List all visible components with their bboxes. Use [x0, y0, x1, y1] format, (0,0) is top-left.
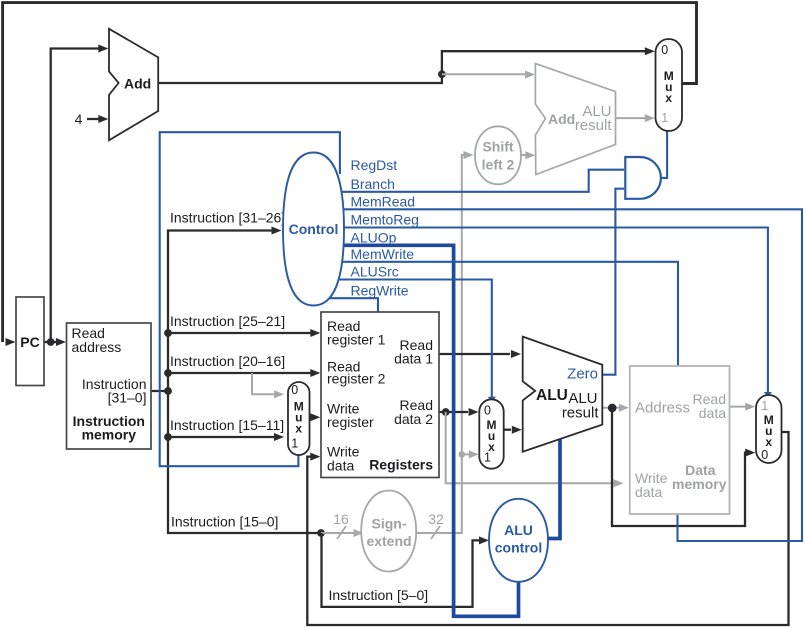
- svg-text:data: data: [327, 458, 354, 474]
- svg-text:Sign-: Sign-: [372, 516, 407, 532]
- svg-text:control: control: [495, 540, 542, 556]
- svg-text:1: 1: [484, 451, 491, 465]
- svg-text:Shift: Shift: [482, 138, 513, 154]
- svg-text:Instruction [15–11]: Instruction [15–11]: [170, 417, 284, 433]
- svg-text:1: 1: [661, 111, 668, 125]
- svg-text:left 2: left 2: [482, 156, 515, 172]
- svg-text:1: 1: [761, 399, 768, 413]
- svg-text:register 1: register 1: [327, 332, 386, 348]
- svg-text:1: 1: [291, 437, 298, 451]
- svg-text:Registers: Registers: [369, 457, 433, 473]
- svg-text:ALUOp: ALUOp: [351, 230, 397, 246]
- svg-text:result: result: [575, 117, 613, 134]
- svg-text:result: result: [562, 404, 600, 421]
- svg-text:PC: PC: [20, 334, 39, 350]
- svg-text:RegDst: RegDst: [351, 157, 398, 173]
- svg-text:memory: memory: [672, 476, 727, 492]
- svg-text:[31–0]: [31–0]: [108, 390, 147, 406]
- svg-text:data 2: data 2: [394, 411, 433, 427]
- svg-text:Instruction [20–16]: Instruction [20–16]: [170, 353, 285, 369]
- svg-text:MemRead: MemRead: [351, 194, 416, 210]
- svg-text:data: data: [635, 484, 662, 500]
- svg-text:x: x: [665, 91, 672, 105]
- svg-text:Add: Add: [548, 111, 575, 127]
- svg-text:register 2: register 2: [327, 371, 386, 387]
- svg-text:Add: Add: [124, 76, 151, 92]
- svg-text:Zero: Zero: [567, 365, 598, 382]
- svg-text:4: 4: [75, 111, 83, 127]
- svg-text:ALU: ALU: [536, 387, 568, 404]
- svg-text:extend: extend: [366, 533, 411, 549]
- svg-text:address: address: [72, 339, 122, 355]
- svg-text:register: register: [327, 414, 374, 430]
- svg-text:Instruction [25–21]: Instruction [25–21]: [170, 313, 285, 329]
- svg-text:Instruction [31–26]: Instruction [31–26]: [170, 210, 285, 226]
- svg-text:0: 0: [291, 383, 298, 397]
- svg-text:data: data: [699, 405, 726, 421]
- svg-text:Instruction [5–0]: Instruction [5–0]: [329, 587, 429, 603]
- svg-text:MemtoReg: MemtoReg: [351, 212, 419, 228]
- svg-text:32: 32: [428, 511, 444, 527]
- svg-text:Branch: Branch: [351, 176, 395, 192]
- svg-text:RegWrite: RegWrite: [351, 283, 409, 299]
- svg-text:data 1: data 1: [394, 351, 433, 367]
- svg-text:16: 16: [333, 511, 349, 527]
- svg-text:0: 0: [661, 43, 668, 57]
- svg-text:ALU: ALU: [504, 522, 533, 538]
- svg-text:0: 0: [761, 448, 768, 462]
- svg-text:memory: memory: [82, 427, 137, 443]
- svg-text:0: 0: [484, 403, 491, 417]
- svg-text:Control: Control: [289, 221, 339, 237]
- svg-text:MemWrite: MemWrite: [351, 246, 415, 262]
- svg-text:x: x: [295, 422, 302, 436]
- svg-text:ALUSrc: ALUSrc: [351, 264, 399, 280]
- svg-text:Instruction [15–0]: Instruction [15–0]: [171, 514, 278, 530]
- svg-text:Address: Address: [635, 400, 690, 417]
- svg-text:x: x: [765, 435, 772, 449]
